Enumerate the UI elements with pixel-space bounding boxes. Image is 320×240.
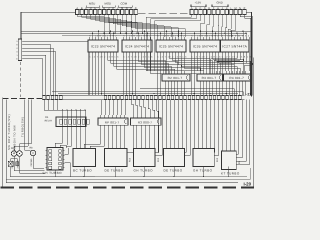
wire dashed drop bbox=[20, 62, 22, 97]
wire U3 to RN1 top bbox=[164, 55, 167, 71]
module M6 body bbox=[193, 149, 214, 167]
wire U4 staircase right bbox=[213, 55, 253, 95]
wire U2 outputs to strip bbox=[124, 55, 136, 95]
module M7 body bbox=[222, 151, 237, 170]
IC U4 bottom pins bbox=[192, 52, 219, 55]
IC U4 body IC26 SN74474 bbox=[190, 40, 220, 52]
svg-text:R4 801-7: R4 801-7 bbox=[229, 76, 244, 80]
IC U2 bottom pins bbox=[124, 52, 151, 55]
module M3 body bbox=[105, 149, 128, 167]
wire U4 left outputs to strip bbox=[192, 55, 195, 95]
wire J3 pin6 bbox=[23, 59, 42, 96]
wire J2 staircase left short bbox=[201, 15, 214, 38]
IC U1 bottom pins bbox=[90, 52, 117, 55]
svg-text:1: 1 bbox=[17, 54, 18, 57]
wire U1 outputs to strip bbox=[90, 55, 105, 95]
IC U1 body IC23 SN74474 bbox=[88, 40, 118, 52]
connector J1 pin letters bbox=[76, 7, 136, 10]
connector strip CN1 rails bbox=[42, 95, 245, 99]
IC U5 body IC27 SN7447A bbox=[221, 40, 250, 52]
wire R1 through wires bbox=[55, 110, 85, 149]
wire strip to M7 straight bbox=[223, 100, 235, 151]
wire R3 outputs bbox=[127, 125, 158, 152]
page border left bbox=[2, 98, 4, 188]
wire dashed J1-J2 link bbox=[138, 13, 190, 15]
wire U1 staircase to RN1 bbox=[108, 55, 175, 74]
connector J1 pin row bbox=[76, 10, 138, 15]
IC U2 top pins bbox=[124, 37, 151, 40]
svg-text:5 12 7 10 2 14 8 1 6: 5 12 7 10 2 14 8 1 6 bbox=[222, 56, 252, 59]
wire mid rail A bbox=[52, 91, 243, 95]
panel border top dashed bbox=[3, 97, 42, 99]
wire U4 to RN2 top bbox=[198, 55, 210, 71]
wire J3 pin4 bbox=[23, 52, 55, 96]
svg-text:+15V: +15V bbox=[195, 1, 202, 5]
svg-text:DE TURBO: DE TURBO bbox=[164, 168, 183, 172]
connector J2 header labels bbox=[191, 1, 228, 7]
svg-text:COM: COM bbox=[121, 2, 128, 6]
wire J2 to right edge bbox=[246, 12, 251, 96]
svg-text:GH TURBO: GH TURBO bbox=[43, 171, 63, 175]
wire strip to M6 straight bbox=[195, 100, 211, 149]
svg-text:BC TURBO: BC TURBO bbox=[73, 168, 92, 172]
IC U4 top pins bbox=[192, 37, 219, 40]
svg-text:2SC945: 2SC945 bbox=[30, 158, 33, 167]
svg-text:R10: R10 bbox=[129, 157, 132, 162]
connector J2 pin letters bbox=[191, 7, 246, 10]
wire J1 staircase bundle long bbox=[113, 15, 185, 38]
wire strip to node line bbox=[44, 100, 58, 110]
wire J3 pin5 bbox=[23, 55, 45, 95]
transistor Q2 leads bbox=[20, 156, 46, 173]
svg-text:4 1 13 8 3 11 6 9 2: 4 1 13 8 3 11 6 9 2 bbox=[89, 35, 117, 38]
svg-text:R10: R10 bbox=[157, 157, 160, 162]
svg-text:GH TURBO: GH TURBO bbox=[193, 168, 213, 172]
connector R1 body bbox=[56, 117, 89, 127]
svg-text:R2 801-7: R2 801-7 bbox=[168, 76, 183, 80]
junction dots node rail bbox=[62, 109, 86, 110]
svg-text:R3 800-7: R3 800-7 bbox=[138, 120, 152, 124]
connector J3 labels bbox=[16, 40, 18, 61]
IC M1 vertical DIP body bbox=[46, 148, 65, 171]
svg-text:IC26 SN74474: IC26 SN74474 bbox=[193, 45, 217, 49]
wire J2 pins straight down bbox=[218, 15, 236, 38]
resistor network RN2 bottom pins to strip bbox=[200, 81, 219, 95]
transistor Q3 lead bbox=[33, 150, 44, 168]
connector J1 header labels bbox=[86, 2, 132, 8]
svg-text:IC24 SN74474: IC24 SN74474 bbox=[125, 45, 149, 49]
svg-text:SW DRV TURBO(SW): SW DRV TURBO(SW) bbox=[7, 114, 11, 150]
IC U3 bottom pins bbox=[158, 52, 185, 55]
wire ground rail A bbox=[10, 176, 247, 178]
IC U2 body IC24 SN74474 bbox=[122, 40, 152, 52]
wire top bus A bbox=[21, 30, 251, 32]
svg-text:DE TURBO: DE TURBO bbox=[105, 168, 124, 172]
wire J3 pin3 bbox=[23, 48, 53, 95]
IC U5 bottom pins bbox=[222, 52, 249, 55]
resistor network R2 top pins bbox=[101, 115, 125, 118]
wire M1 right pins bbox=[65, 148, 71, 177]
wire from J1 to left bus bbox=[21, 11, 76, 13]
connector strip CN1 left pins bbox=[43, 96, 62, 99]
wire U3 outputs to strip bbox=[158, 55, 161, 95]
wire R2 outputs bbox=[84, 125, 125, 148]
page border bottom dashed bbox=[1, 186, 255, 188]
svg-text:R: R bbox=[16, 43, 18, 46]
IC U3 body IC25 SN74474 bbox=[156, 40, 186, 52]
wire ground rail B bbox=[6, 168, 250, 179]
svg-text:IC27 SN7447A: IC27 SN7447A bbox=[222, 45, 247, 49]
svg-text:5 12 7 10 2 14 8 1 6: 5 12 7 10 2 14 8 1 6 bbox=[89, 56, 119, 59]
svg-text:GH TURBO: GH TURBO bbox=[134, 168, 154, 172]
junction dots mid rails bbox=[95, 91, 227, 94]
page border right bbox=[252, 58, 254, 188]
wire wrap M5 right bbox=[185, 100, 190, 156]
svg-text:0: 0 bbox=[17, 47, 18, 50]
svg-text:5: 5 bbox=[17, 40, 18, 43]
module M5 body bbox=[164, 149, 185, 167]
resistor network RN3 body R4 801-7 bbox=[224, 74, 253, 81]
svg-text:I-20: I-20 bbox=[244, 182, 252, 187]
IC U4 bus taps bbox=[194, 31, 216, 38]
svg-text:TURBO(SW): TURBO(SW) bbox=[20, 116, 24, 137]
IC U2 bus taps bbox=[126, 31, 148, 38]
wire fuse loop bbox=[11, 159, 96, 177]
IC U1 top pins bbox=[90, 37, 117, 40]
svg-text:IC23 SN74474: IC23 SN74474 bbox=[91, 45, 115, 49]
resistor network RN3 bottom pins to strip bbox=[227, 81, 246, 95]
connector strip CN1 main pins bbox=[104, 96, 241, 99]
svg-text:4 1 13 8 3 11 6 9 2: 4 1 13 8 3 11 6 9 2 bbox=[222, 35, 250, 38]
wire strip to M5 straight bbox=[166, 100, 182, 149]
wire mid rail C bbox=[140, 88, 234, 95]
svg-text:MOD: MOD bbox=[105, 2, 112, 6]
svg-text:KT TURBO: KT TURBO bbox=[221, 171, 240, 175]
wire left drops to transistors bbox=[14, 100, 32, 151]
svg-text:I-21: I-21 bbox=[245, 93, 251, 97]
wire J1 staircase bundle short bbox=[77, 15, 143, 35]
module M4 body bbox=[134, 149, 156, 167]
svg-text:4 1 13 8 3 11 6 9 2: 4 1 13 8 3 11 6 9 2 bbox=[123, 35, 151, 38]
transistor Q2 bbox=[17, 151, 22, 156]
module M2 body bbox=[73, 149, 96, 167]
capacitor C1 small box bbox=[16, 162, 19, 166]
resistor network RN2 body R3 801-7 bbox=[197, 74, 223, 81]
wire strip to R3 staircase bbox=[131, 100, 159, 118]
wire node rail bbox=[44, 109, 86, 111]
wire strip to R2 bbox=[101, 100, 125, 115]
transistor Q1 bbox=[11, 151, 16, 156]
wire J2 staircase left long bbox=[146, 15, 200, 74]
svg-text:MSU: MSU bbox=[89, 2, 95, 6]
svg-text:5 12 7 10 2 14 8 1 6: 5 12 7 10 2 14 8 1 6 bbox=[191, 56, 221, 59]
svg-text:RELAY: RELAY bbox=[45, 120, 53, 123]
resistor network RN1 bottom pins to strip bbox=[165, 81, 184, 95]
transistor Q1 leads bbox=[14, 156, 45, 170]
wire J2 right jog to strip bbox=[244, 15, 251, 96]
svg-text:R3 801-7: R3 801-7 bbox=[202, 76, 217, 80]
connector J3 body bbox=[18, 39, 21, 61]
wire wrap M6 right bbox=[214, 100, 218, 156]
wire module drops to rail bbox=[55, 167, 229, 178]
resistor network RN1 top pins bbox=[165, 71, 184, 74]
svg-text:5 12 7 10 2 14 8 1 6: 5 12 7 10 2 14 8 1 6 bbox=[157, 56, 187, 59]
svg-text:IC25 SN74474: IC25 SN74474 bbox=[159, 45, 183, 49]
resistor network RN3 top pins bbox=[227, 71, 246, 74]
wire J3 pin2 bbox=[23, 45, 50, 96]
svg-text:GND: GND bbox=[217, 1, 223, 5]
wire J3 pin1 long bbox=[23, 41, 88, 95]
IC U3 bus taps bbox=[160, 31, 182, 38]
wire thick vertical drop bbox=[20, 12, 22, 39]
panel border left inner bbox=[5, 100, 7, 183]
svg-text:5 12 7 10 2 14 8 1 6: 5 12 7 10 2 14 8 1 6 bbox=[123, 56, 153, 59]
svg-text:R8: R8 bbox=[30, 147, 34, 150]
svg-text:S: S bbox=[16, 50, 18, 53]
wire U2 staircase to RN1 RN2 bbox=[139, 55, 207, 74]
IC U3 top pins bbox=[158, 37, 185, 40]
fuse F1 box with cross bbox=[8, 161, 13, 167]
wire mid rail B bbox=[58, 92, 238, 94]
label R1 RELAY bbox=[45, 116, 53, 122]
wire J2 right jog to R-pack bbox=[240, 15, 253, 74]
svg-text:R1: R1 bbox=[45, 116, 49, 119]
svg-text:4 1 13 8 3 11 6 9 2: 4 1 13 8 3 11 6 9 2 bbox=[191, 35, 219, 38]
resistor network RN2 top pins bbox=[200, 71, 219, 74]
wire wrap M4 right bbox=[155, 100, 162, 156]
panel border bottom bbox=[6, 182, 238, 184]
svg-text:4 1 13 8 3 11 6 9 2: 4 1 13 8 3 11 6 9 2 bbox=[157, 35, 185, 38]
connector J2 pin row bbox=[190, 10, 246, 15]
wire wrap M7 right bbox=[236, 100, 249, 165]
svg-text:G: G bbox=[16, 57, 18, 60]
connector J3 pin ticks bbox=[22, 41, 24, 59]
wire U5 outputs to RN3 bbox=[211, 55, 249, 95]
IC U1 bus taps bbox=[92, 31, 114, 38]
resistor network RN1 body R2 801-7 bbox=[162, 74, 190, 81]
wire top bus C bbox=[62, 34, 244, 36]
wire top bus B bbox=[21, 32, 247, 34]
resistor network R2 body bbox=[98, 118, 128, 125]
svg-text:R10: R10 bbox=[216, 157, 219, 162]
svg-text:RP 801-7: RP 801-7 bbox=[105, 120, 120, 124]
IC U5 bus taps bbox=[224, 31, 246, 38]
IC U5 top pins bbox=[222, 37, 249, 40]
resistor network R3 body bbox=[131, 118, 162, 125]
transistor Q3 bbox=[30, 150, 35, 155]
wire U3 staircase to RN2 RN3 bbox=[170, 55, 241, 74]
